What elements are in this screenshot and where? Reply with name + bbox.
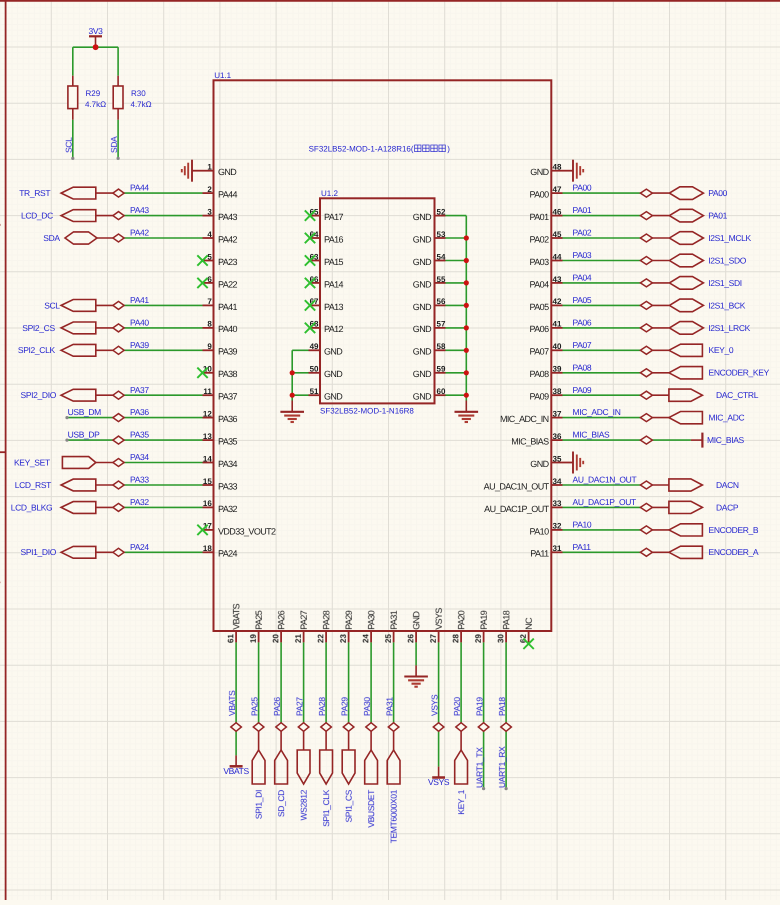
svg-text:AU_DAC1P_OUT: AU_DAC1P_OUT bbox=[573, 497, 637, 507]
svg-text:PA06: PA06 bbox=[530, 324, 550, 334]
svg-text:8: 8 bbox=[207, 320, 212, 329]
svg-text:GND: GND bbox=[413, 302, 432, 312]
svg-text:PA08: PA08 bbox=[573, 362, 592, 372]
svg-text:49: 49 bbox=[310, 342, 319, 351]
svg-text:55: 55 bbox=[437, 275, 446, 284]
svg-text:18: 18 bbox=[203, 544, 212, 553]
svg-text:PA24: PA24 bbox=[218, 549, 238, 559]
svg-text:13: 13 bbox=[203, 432, 212, 441]
svg-text:VSYS: VSYS bbox=[429, 694, 439, 716]
svg-text:PA22: PA22 bbox=[218, 279, 238, 289]
svg-text:GND: GND bbox=[530, 459, 549, 469]
svg-text:21: 21 bbox=[294, 634, 303, 643]
svg-text:PA24: PA24 bbox=[130, 542, 149, 552]
svg-text:34: 34 bbox=[553, 477, 562, 486]
svg-text:I2S1_LRCK: I2S1_LRCK bbox=[708, 323, 750, 333]
svg-text:GND: GND bbox=[324, 392, 343, 402]
svg-text:9: 9 bbox=[207, 342, 212, 351]
svg-text:SPI1_CLK: SPI1_CLK bbox=[321, 789, 331, 827]
svg-text:KEY_0: KEY_0 bbox=[709, 345, 734, 355]
svg-text:PA01: PA01 bbox=[530, 212, 550, 222]
svg-text:45: 45 bbox=[553, 230, 562, 239]
svg-text:GND: GND bbox=[413, 324, 432, 334]
svg-text:15: 15 bbox=[203, 477, 212, 486]
svg-text:PA11: PA11 bbox=[530, 549, 549, 559]
svg-text:KEY_1: KEY_1 bbox=[456, 789, 466, 814]
svg-text:PA34: PA34 bbox=[130, 452, 149, 462]
svg-text:PA09: PA09 bbox=[530, 392, 550, 402]
svg-text:I2S1_SDO: I2S1_SDO bbox=[708, 255, 747, 265]
svg-text:MIC_ADC: MIC_ADC bbox=[709, 413, 745, 423]
svg-text:PA00: PA00 bbox=[530, 190, 550, 200]
svg-text:GND: GND bbox=[413, 392, 432, 402]
svg-text:11: 11 bbox=[203, 387, 212, 396]
svg-text:LCD_RST: LCD_RST bbox=[15, 480, 51, 490]
svg-text:GND: GND bbox=[413, 234, 432, 244]
svg-text:): ) bbox=[447, 145, 450, 154]
svg-text:PA42: PA42 bbox=[130, 228, 149, 238]
svg-text:PA33: PA33 bbox=[218, 481, 238, 491]
svg-text:I2S1_SDI: I2S1_SDI bbox=[708, 278, 742, 288]
svg-text:PA10: PA10 bbox=[573, 520, 592, 530]
svg-text:AU_DAC1N_OUT: AU_DAC1N_OUT bbox=[484, 481, 550, 491]
svg-text:PA04: PA04 bbox=[573, 273, 592, 283]
svg-text:PA00: PA00 bbox=[573, 183, 592, 193]
svg-text:26: 26 bbox=[406, 634, 415, 643]
svg-text:PA25: PA25 bbox=[249, 697, 259, 716]
svg-text:PA20: PA20 bbox=[452, 697, 462, 716]
svg-text:PA18: PA18 bbox=[497, 697, 507, 716]
svg-text:PA43: PA43 bbox=[130, 205, 149, 215]
svg-text:51: 51 bbox=[310, 387, 319, 396]
svg-text:PA44: PA44 bbox=[218, 190, 238, 200]
svg-text:57: 57 bbox=[437, 320, 446, 329]
svg-text:PA02: PA02 bbox=[530, 234, 550, 244]
svg-text:22: 22 bbox=[316, 634, 325, 643]
svg-text:PA43: PA43 bbox=[218, 212, 238, 222]
svg-text:5: 5 bbox=[207, 252, 212, 261]
svg-text:PA41: PA41 bbox=[218, 302, 238, 312]
svg-text:SCL: SCL bbox=[64, 137, 74, 153]
svg-text:PA36: PA36 bbox=[218, 414, 238, 424]
svg-text:PA19: PA19 bbox=[479, 610, 489, 630]
svg-text:GND: GND bbox=[324, 347, 343, 357]
svg-text:SPI2_CS: SPI2_CS bbox=[22, 323, 55, 333]
svg-text:PA33: PA33 bbox=[130, 475, 149, 485]
svg-text:PA06: PA06 bbox=[573, 318, 592, 328]
svg-text:WS2812: WS2812 bbox=[299, 789, 309, 820]
svg-text:PA02: PA02 bbox=[573, 228, 592, 238]
svg-text:ENCODER_B: ENCODER_B bbox=[709, 525, 759, 535]
svg-text:U1.1: U1.1 bbox=[214, 71, 231, 80]
svg-text:PA16: PA16 bbox=[324, 234, 344, 244]
svg-text:33: 33 bbox=[553, 499, 562, 508]
svg-text:GND: GND bbox=[413, 369, 432, 379]
svg-text:GND: GND bbox=[324, 369, 343, 379]
svg-text:16: 16 bbox=[203, 499, 212, 508]
svg-text:PA32: PA32 bbox=[218, 504, 238, 514]
svg-text:GND: GND bbox=[413, 347, 432, 357]
svg-text:PA13: PA13 bbox=[324, 302, 344, 312]
svg-text:PA07: PA07 bbox=[530, 347, 550, 357]
svg-text:PA35: PA35 bbox=[130, 430, 149, 440]
svg-text:PA36: PA36 bbox=[130, 407, 149, 417]
svg-text:SF32LB52-MOD-1-N16R8: SF32LB52-MOD-1-N16R8 bbox=[320, 407, 414, 416]
svg-text:GND: GND bbox=[413, 212, 432, 222]
svg-text:AU_DAC1N_OUT: AU_DAC1N_OUT bbox=[573, 475, 637, 485]
svg-text:PA26: PA26 bbox=[272, 697, 282, 716]
svg-text:28: 28 bbox=[451, 634, 460, 643]
svg-text:PA39: PA39 bbox=[218, 347, 238, 357]
svg-text:20: 20 bbox=[271, 634, 280, 643]
svg-text:GND: GND bbox=[218, 167, 237, 177]
svg-text:PA27: PA27 bbox=[294, 697, 304, 716]
svg-text:29: 29 bbox=[474, 634, 483, 643]
svg-text:PA11: PA11 bbox=[573, 542, 592, 552]
svg-text:PA41: PA41 bbox=[130, 295, 149, 305]
svg-text:SF32LB52-MOD-1-A128R16(: SF32LB52-MOD-1-A128R16( bbox=[309, 145, 414, 154]
svg-text:R29: R29 bbox=[86, 89, 101, 98]
svg-text:TR_RST: TR_RST bbox=[19, 188, 50, 198]
svg-text:SDA: SDA bbox=[109, 136, 119, 153]
svg-text:NC: NC bbox=[524, 617, 534, 630]
svg-text:GND: GND bbox=[413, 279, 432, 289]
svg-text:38: 38 bbox=[553, 387, 562, 396]
svg-text:PA40: PA40 bbox=[130, 318, 149, 328]
svg-text:3V3: 3V3 bbox=[88, 26, 103, 36]
svg-text:60: 60 bbox=[437, 387, 446, 396]
svg-text:AU_DAC1P_OUT: AU_DAC1P_OUT bbox=[484, 504, 549, 514]
svg-text:PA10: PA10 bbox=[530, 526, 550, 536]
svg-text:MIC_ADC_IN: MIC_ADC_IN bbox=[500, 414, 549, 424]
svg-text:PA30: PA30 bbox=[362, 697, 372, 716]
svg-text:41: 41 bbox=[553, 320, 562, 329]
svg-text:MIC_BIAS: MIC_BIAS bbox=[573, 430, 611, 440]
svg-text:USB_DP: USB_DP bbox=[68, 430, 101, 440]
svg-text:PA09: PA09 bbox=[573, 385, 592, 395]
svg-text:SPI1_CS: SPI1_CS bbox=[344, 789, 354, 822]
svg-text:PA07: PA07 bbox=[573, 340, 592, 350]
svg-text:PA44: PA44 bbox=[130, 183, 149, 193]
svg-text:PA01: PA01 bbox=[573, 205, 592, 215]
svg-text:40: 40 bbox=[553, 342, 562, 351]
svg-text:4: 4 bbox=[207, 230, 212, 239]
svg-text:23: 23 bbox=[339, 634, 348, 643]
svg-text:VSYS: VSYS bbox=[428, 777, 450, 787]
svg-text:MIC_BIAS: MIC_BIAS bbox=[707, 435, 745, 445]
svg-text:MIC_ADC_IN: MIC_ADC_IN bbox=[573, 407, 621, 417]
svg-text:PA04: PA04 bbox=[530, 279, 550, 289]
svg-text:25: 25 bbox=[384, 634, 393, 643]
svg-text:PA23: PA23 bbox=[218, 257, 238, 267]
svg-text:SPI1_DIO: SPI1_DIO bbox=[21, 547, 57, 557]
svg-text:PA15: PA15 bbox=[324, 257, 344, 267]
svg-text:43: 43 bbox=[553, 275, 562, 284]
svg-text:59: 59 bbox=[437, 365, 446, 374]
svg-text:PA25: PA25 bbox=[254, 610, 264, 630]
svg-text:MIC_BIAS: MIC_BIAS bbox=[511, 437, 549, 447]
svg-text:32: 32 bbox=[553, 522, 562, 531]
svg-text:KEY_SET: KEY_SET bbox=[14, 457, 50, 467]
svg-text:35: 35 bbox=[553, 454, 562, 463]
svg-text:3: 3 bbox=[207, 207, 212, 216]
svg-text:PA31: PA31 bbox=[389, 610, 399, 630]
svg-text:2: 2 bbox=[207, 185, 212, 194]
svg-text:PA27: PA27 bbox=[299, 610, 309, 630]
svg-text:6: 6 bbox=[207, 275, 212, 284]
svg-text:UART1_RX: UART1_RX bbox=[497, 746, 507, 788]
svg-text:4.7kΩ: 4.7kΩ bbox=[131, 100, 152, 109]
svg-text:30: 30 bbox=[496, 634, 505, 643]
svg-text:SD_CD: SD_CD bbox=[276, 790, 286, 817]
svg-text:39: 39 bbox=[553, 365, 562, 374]
svg-text:SPI2_DIO: SPI2_DIO bbox=[21, 390, 57, 400]
svg-text:PA26: PA26 bbox=[276, 610, 286, 630]
svg-text:58: 58 bbox=[437, 342, 446, 351]
svg-text:SDA: SDA bbox=[43, 233, 60, 243]
svg-text:LCD_DC: LCD_DC bbox=[21, 211, 53, 221]
svg-text:PA37: PA37 bbox=[130, 385, 149, 395]
svg-text:SPI2_CLK: SPI2_CLK bbox=[18, 345, 56, 355]
svg-text:GND: GND bbox=[530, 167, 549, 177]
svg-text:PA03: PA03 bbox=[530, 257, 550, 267]
svg-text:DACN: DACN bbox=[716, 480, 739, 490]
svg-text:VBATS: VBATS bbox=[223, 766, 249, 776]
svg-text:USB_DM: USB_DM bbox=[68, 407, 102, 417]
svg-text:VDD33_VOUT2: VDD33_VOUT2 bbox=[218, 526, 276, 536]
svg-text:VBUSDET: VBUSDET bbox=[366, 790, 376, 828]
svg-text:PA39: PA39 bbox=[130, 340, 149, 350]
svg-text:24: 24 bbox=[361, 634, 370, 643]
svg-text:PA05: PA05 bbox=[530, 302, 550, 312]
svg-text:PA31: PA31 bbox=[384, 697, 394, 716]
svg-text:LCD_BLKG: LCD_BLKG bbox=[11, 502, 53, 512]
svg-text:61: 61 bbox=[226, 634, 235, 643]
svg-text:14: 14 bbox=[203, 454, 212, 463]
svg-text:VBATS: VBATS bbox=[231, 603, 241, 629]
svg-text:I2S1_MCLK: I2S1_MCLK bbox=[708, 233, 751, 243]
svg-text:PA35: PA35 bbox=[218, 437, 238, 447]
svg-text:PA17: PA17 bbox=[324, 212, 344, 222]
svg-text:PA37: PA37 bbox=[218, 392, 238, 402]
svg-text:PA42: PA42 bbox=[218, 234, 238, 244]
svg-text:PA34: PA34 bbox=[218, 459, 238, 469]
svg-text:GND: GND bbox=[411, 611, 421, 630]
svg-text:19: 19 bbox=[249, 634, 258, 643]
svg-text:PA01: PA01 bbox=[708, 211, 727, 221]
svg-text:PA08: PA08 bbox=[530, 369, 550, 379]
svg-text:PA28: PA28 bbox=[317, 697, 327, 716]
svg-text:U1.2: U1.2 bbox=[321, 189, 338, 198]
svg-text:1: 1 bbox=[207, 163, 212, 172]
svg-text:42: 42 bbox=[553, 297, 562, 306]
svg-text:R30: R30 bbox=[131, 89, 146, 98]
svg-text:4.7kΩ: 4.7kΩ bbox=[85, 100, 106, 109]
svg-text:PA12: PA12 bbox=[324, 324, 344, 334]
svg-text:I2S1_BCK: I2S1_BCK bbox=[708, 300, 746, 310]
svg-text:50: 50 bbox=[310, 365, 319, 374]
svg-text:PA00: PA00 bbox=[708, 188, 727, 198]
svg-text:PA40: PA40 bbox=[218, 324, 238, 334]
svg-text:UART1_TX: UART1_TX bbox=[474, 747, 484, 788]
svg-text:PA14: PA14 bbox=[324, 279, 344, 289]
svg-text:ENCODER_KEY: ENCODER_KEY bbox=[709, 368, 770, 378]
svg-text:PA03: PA03 bbox=[573, 250, 592, 260]
svg-text:7: 7 bbox=[207, 297, 212, 306]
svg-text:DACP: DACP bbox=[716, 502, 739, 512]
svg-text:56: 56 bbox=[437, 297, 446, 306]
svg-text:48: 48 bbox=[553, 163, 562, 172]
svg-text:PA05: PA05 bbox=[573, 295, 592, 305]
svg-text:12: 12 bbox=[203, 409, 212, 418]
svg-text:52: 52 bbox=[437, 207, 446, 216]
svg-text:46: 46 bbox=[553, 207, 562, 216]
svg-text:PA18: PA18 bbox=[501, 610, 511, 630]
svg-text:54: 54 bbox=[437, 252, 446, 261]
svg-text:47: 47 bbox=[553, 185, 562, 194]
svg-text:SPI1_DI: SPI1_DI bbox=[254, 790, 264, 819]
svg-text:27: 27 bbox=[429, 634, 438, 643]
svg-text:DAC_CTRL: DAC_CTRL bbox=[716, 390, 759, 400]
svg-text:PA30: PA30 bbox=[366, 610, 376, 630]
svg-text:PA20: PA20 bbox=[456, 610, 466, 630]
svg-text:PA29: PA29 bbox=[339, 697, 349, 716]
svg-text:53: 53 bbox=[437, 230, 446, 239]
svg-text:TEMT6000X01: TEMT6000X01 bbox=[389, 789, 399, 843]
svg-text:VSYS: VSYS bbox=[434, 608, 444, 630]
svg-text:GND: GND bbox=[413, 257, 432, 267]
svg-text:SCL: SCL bbox=[44, 300, 60, 310]
svg-text:36: 36 bbox=[553, 432, 562, 441]
svg-text:31: 31 bbox=[553, 544, 562, 553]
svg-text:VBATS: VBATS bbox=[227, 690, 237, 716]
svg-text:37: 37 bbox=[553, 409, 562, 418]
svg-text:PA32: PA32 bbox=[130, 497, 149, 507]
svg-text:PA38: PA38 bbox=[218, 369, 238, 379]
svg-text:PA29: PA29 bbox=[344, 610, 354, 630]
svg-text:PA28: PA28 bbox=[321, 610, 331, 630]
svg-text:ENCODER_A: ENCODER_A bbox=[709, 547, 759, 557]
svg-text:44: 44 bbox=[553, 252, 562, 261]
svg-text:PA19: PA19 bbox=[474, 697, 484, 716]
